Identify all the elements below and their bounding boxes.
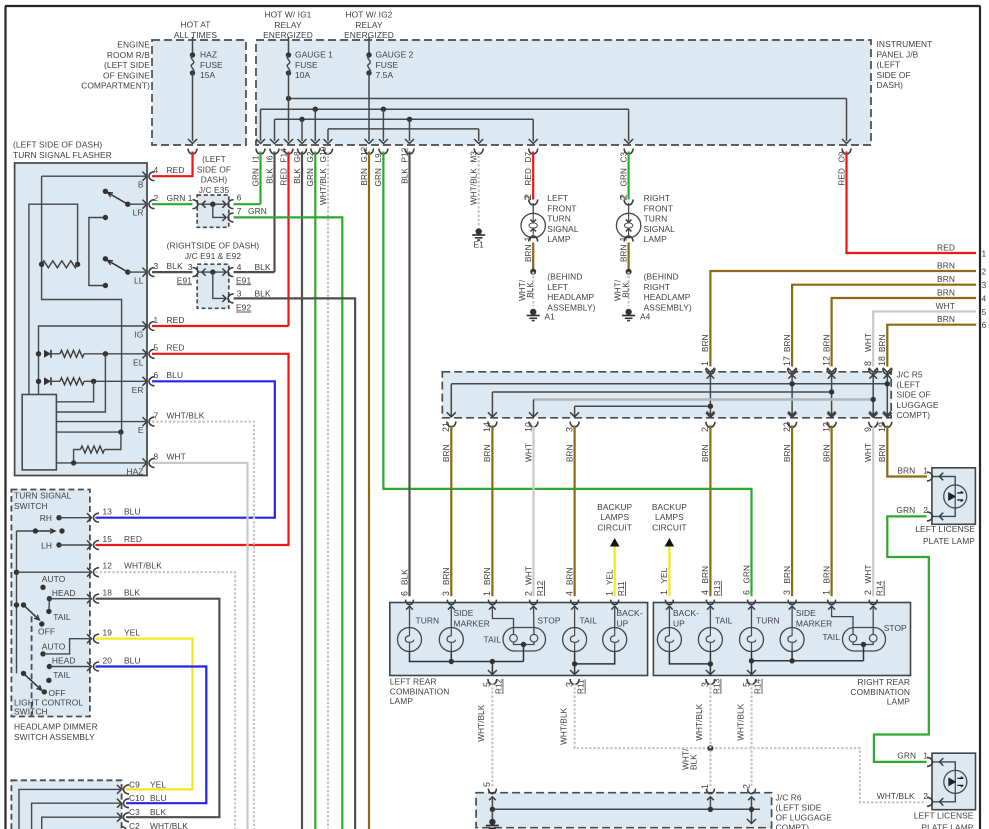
svg-text:C10: C10: [129, 793, 145, 803]
svg-text:1: 1: [618, 237, 628, 242]
svg-text:O9: O9: [837, 151, 846, 162]
svg-text:BRN: BRN: [565, 444, 574, 462]
svg-text:F14: F14: [279, 148, 288, 163]
svg-text:G10: G10: [319, 146, 328, 162]
svg-text:E1: E1: [473, 240, 484, 250]
svg-text:WHT/BLK: WHT/BLK: [124, 561, 162, 571]
svg-text:BLK: BLK: [167, 261, 183, 271]
svg-text:1: 1: [700, 784, 710, 789]
svg-text:ASSEMBLY): ASSEMBLY): [644, 302, 692, 312]
svg-text:STOP: STOP: [538, 616, 561, 626]
svg-text:SIDE OF: SIDE OF: [877, 70, 911, 80]
svg-text:BRN: BRN: [701, 566, 710, 584]
svg-text:6: 6: [982, 320, 987, 330]
svg-text:BRN: BRN: [878, 334, 887, 352]
svg-text:J/C R5: J/C R5: [897, 370, 923, 380]
svg-text:LUGGAGE: LUGGAGE: [897, 400, 939, 410]
svg-text:C9: C9: [129, 779, 140, 789]
svg-text:PANEL J/B: PANEL J/B: [877, 49, 919, 59]
svg-text:2: 2: [982, 267, 987, 277]
svg-text:GRN: GRN: [742, 565, 751, 584]
svg-text:YEL: YEL: [660, 567, 669, 583]
svg-text:GRN: GRN: [306, 168, 315, 187]
svg-text:2: 2: [618, 196, 628, 201]
svg-text:TAIL: TAIL: [53, 670, 71, 680]
svg-text:R13: R13: [713, 678, 722, 694]
svg-text:WHT/BLK: WHT/BLK: [736, 703, 745, 741]
svg-text:RED: RED: [124, 534, 142, 544]
svg-text:22: 22: [782, 422, 792, 432]
svg-text:TURN SIGNAL FLASHER: TURN SIGNAL FLASHER: [13, 150, 112, 160]
svg-text:8: 8: [154, 452, 159, 462]
svg-text:BRN: BRN: [937, 274, 955, 284]
svg-text:C2: C2: [129, 821, 140, 829]
svg-text:BACKUP: BACKUP: [652, 502, 687, 512]
svg-text:(LEFT SIDE OF DASH): (LEFT SIDE OF DASH): [13, 140, 102, 150]
svg-text:G2: G2: [306, 151, 315, 162]
svg-text:3: 3: [188, 262, 193, 272]
svg-text:I1: I1: [251, 155, 260, 162]
svg-text:BRN: BRN: [822, 566, 831, 584]
svg-text:BRN: BRN: [442, 444, 451, 462]
svg-text:BLK: BLK: [621, 282, 630, 298]
svg-text:ER: ER: [132, 385, 144, 395]
svg-text:G8: G8: [293, 151, 302, 162]
svg-text:GRN: GRN: [248, 206, 267, 216]
svg-text:BRN: BRN: [524, 244, 533, 262]
svg-text:3: 3: [564, 682, 574, 687]
svg-text:18: 18: [877, 356, 887, 366]
svg-text:C3: C3: [129, 807, 140, 817]
svg-text:BLK: BLK: [255, 262, 271, 272]
svg-text:R13: R13: [713, 580, 722, 596]
svg-text:BRN: BRN: [783, 566, 792, 584]
svg-text:(LEFT SIDE: (LEFT SIDE: [776, 803, 822, 813]
svg-text:BLK: BLK: [124, 588, 140, 598]
svg-text:YEL: YEL: [606, 569, 615, 585]
svg-text:BACK-: BACK-: [673, 608, 699, 618]
svg-text:GRN: GRN: [619, 168, 628, 187]
svg-text:TAIL: TAIL: [53, 612, 71, 622]
svg-text:BRN: BRN: [483, 567, 492, 585]
svg-text:SIDE: SIDE: [454, 608, 474, 618]
svg-text:SIDE: SIDE: [796, 608, 816, 618]
svg-text:HEADLAMP: HEADLAMP: [547, 292, 594, 302]
svg-text:PLATE LAMP: PLATE LAMP: [921, 823, 973, 829]
svg-text:FRONT: FRONT: [644, 203, 673, 213]
svg-text:LAMP: LAMP: [390, 696, 414, 706]
svg-text:1: 1: [523, 237, 533, 242]
svg-text:GRN: GRN: [897, 751, 916, 761]
svg-text:D7: D7: [524, 151, 533, 162]
svg-text:4: 4: [982, 294, 987, 304]
svg-text:(RIGHTSIDE OF DASH): (RIGHTSIDE OF DASH): [167, 241, 260, 251]
svg-text:BLU: BLU: [124, 507, 141, 517]
svg-text:WHT/BLK: WHT/BLK: [695, 703, 704, 741]
svg-text:OF ENGINE: OF ENGINE: [103, 70, 150, 80]
svg-text:SWITCH ASSEMBLY: SWITCH ASSEMBLY: [14, 732, 95, 742]
svg-text:BACK-: BACK-: [617, 608, 643, 618]
svg-text:TAIL: TAIL: [715, 616, 733, 626]
svg-text:RELAY: RELAY: [355, 20, 383, 30]
svg-text:BRN: BRN: [937, 288, 955, 298]
svg-text:GRN: GRN: [896, 505, 915, 515]
svg-text:WHT: WHT: [864, 333, 873, 352]
svg-text:L9: L9: [374, 153, 383, 163]
svg-text:R12: R12: [495, 678, 504, 694]
svg-text:BRN: BRN: [822, 334, 831, 352]
svg-text:WHT/BLK: WHT/BLK: [470, 168, 479, 206]
svg-text:LEFT: LEFT: [547, 282, 568, 292]
svg-text:GRN: GRN: [167, 193, 186, 203]
svg-text:(LEFT: (LEFT: [897, 380, 921, 390]
svg-text:WHT/BLK: WHT/BLK: [560, 707, 569, 745]
svg-text:WHT: WHT: [524, 443, 533, 462]
svg-text:WHT/BLK: WHT/BLK: [319, 168, 328, 206]
svg-text:LAMPS: LAMPS: [655, 512, 684, 522]
svg-text:(LEFT: (LEFT: [877, 60, 901, 70]
svg-text:LEFT LICENSE: LEFT LICENSE: [914, 811, 974, 821]
svg-text:AUTO: AUTO: [42, 642, 66, 652]
svg-text:9: 9: [863, 427, 873, 432]
svg-text:RED: RED: [167, 315, 185, 325]
svg-text:WHT/BLK: WHT/BLK: [477, 704, 486, 742]
svg-text:INSTRUMENT: INSTRUMENT: [877, 39, 933, 49]
svg-text:E91: E91: [236, 275, 251, 285]
svg-text:BLK: BLK: [255, 289, 271, 299]
svg-text:FUSE: FUSE: [295, 60, 318, 70]
svg-text:1: 1: [188, 193, 193, 203]
svg-text:2: 2: [923, 791, 928, 801]
svg-text:R14: R14: [876, 580, 885, 596]
svg-text:13: 13: [103, 507, 113, 517]
svg-text:WHT: WHT: [936, 301, 955, 311]
svg-text:6: 6: [399, 591, 409, 596]
svg-text:4: 4: [564, 591, 574, 596]
svg-text:12: 12: [821, 356, 831, 366]
svg-text:ALL TIMES: ALL TIMES: [174, 30, 218, 40]
svg-text:BLK: BLK: [400, 569, 409, 585]
svg-text:LEFT: LEFT: [547, 193, 568, 203]
svg-text:13: 13: [821, 422, 831, 432]
svg-text:TAIL: TAIL: [823, 632, 841, 642]
svg-text:(LEFT SIDE: (LEFT SIDE: [104, 60, 150, 70]
svg-text:COMPARTMENT): COMPARTMENT): [81, 81, 150, 91]
svg-text:BLK: BLK: [400, 168, 409, 184]
svg-text:GAUGE 2: GAUGE 2: [376, 50, 414, 60]
svg-text:STOP: STOP: [884, 623, 907, 633]
svg-text:1: 1: [700, 361, 710, 366]
svg-text:RIGHT REAR: RIGHT REAR: [858, 677, 911, 687]
svg-text:BRN: BRN: [878, 444, 887, 462]
svg-text:COMPT): COMPT): [897, 410, 931, 420]
svg-text:BRN: BRN: [783, 334, 792, 352]
svg-text:HEADLAMP: HEADLAMP: [644, 292, 691, 302]
svg-text:RIGHT: RIGHT: [644, 282, 671, 292]
svg-text:HEAD: HEAD: [52, 588, 76, 598]
svg-text:8: 8: [863, 361, 873, 366]
svg-text:4: 4: [237, 262, 242, 272]
svg-text:RELAY: RELAY: [274, 20, 302, 30]
svg-text:3: 3: [700, 682, 710, 687]
svg-text:TAIL: TAIL: [580, 616, 598, 626]
svg-text:WHT: WHT: [524, 566, 533, 585]
svg-text:C3: C3: [619, 151, 628, 162]
svg-text:(BEHIND: (BEHIND: [547, 272, 582, 282]
svg-text:SIGNAL: SIGNAL: [644, 224, 676, 234]
svg-text:R12: R12: [536, 580, 545, 596]
svg-text:5: 5: [482, 682, 492, 687]
svg-text:HAZ: HAZ: [126, 466, 143, 476]
svg-text:MARKER: MARKER: [454, 618, 490, 628]
svg-text:IG: IG: [134, 330, 143, 340]
svg-text:RED: RED: [167, 343, 185, 353]
svg-text:YEL: YEL: [124, 628, 140, 638]
svg-text:5: 5: [154, 343, 159, 353]
svg-text:RED: RED: [937, 243, 955, 253]
svg-text:I6: I6: [265, 155, 274, 162]
svg-text:RED: RED: [167, 165, 185, 175]
svg-text:WHT/BLK: WHT/BLK: [877, 791, 915, 801]
svg-text:5: 5: [482, 782, 492, 787]
svg-text:1: 1: [821, 590, 831, 595]
svg-text:19: 19: [103, 628, 113, 638]
svg-text:R14: R14: [754, 678, 763, 694]
svg-text:RED: RED: [524, 168, 533, 186]
svg-text:3: 3: [982, 280, 987, 290]
svg-text:J/C E35: J/C E35: [199, 185, 230, 195]
svg-text:BRN: BRN: [483, 444, 492, 462]
svg-text:FRONT: FRONT: [547, 203, 576, 213]
svg-text:4: 4: [700, 590, 710, 595]
svg-text:1: 1: [605, 591, 615, 596]
svg-text:15: 15: [103, 534, 113, 544]
svg-text:RH: RH: [40, 513, 52, 523]
svg-text:BRN: BRN: [360, 168, 369, 186]
svg-text:5: 5: [741, 682, 751, 687]
svg-text:BLK: BLK: [690, 754, 699, 770]
svg-text:MARKER: MARKER: [796, 618, 832, 628]
svg-text:4: 4: [154, 165, 159, 175]
svg-text:BRN: BRN: [822, 444, 831, 462]
svg-text:COMPT): COMPT): [776, 823, 810, 829]
svg-text:(LEFT: (LEFT: [202, 154, 226, 164]
svg-text:TURN: TURN: [416, 616, 440, 626]
svg-text:ENGINE: ENGINE: [117, 40, 150, 50]
svg-text:12: 12: [103, 561, 113, 571]
svg-text:LR: LR: [133, 208, 144, 218]
svg-text:2: 2: [741, 784, 751, 789]
svg-text:BACKUP: BACKUP: [597, 502, 632, 512]
svg-text:ROOM R/B: ROOM R/B: [107, 50, 150, 60]
svg-text:E: E: [138, 425, 144, 435]
svg-text:CIRCUIT: CIRCUIT: [597, 522, 632, 532]
svg-text:2: 2: [523, 591, 533, 596]
svg-text:WHT: WHT: [864, 443, 873, 462]
svg-text:19: 19: [877, 422, 887, 432]
svg-text:RIGHT: RIGHT: [644, 193, 671, 203]
svg-text:TURN: TURN: [644, 214, 668, 224]
svg-text:BLK: BLK: [526, 282, 535, 298]
svg-text:1: 1: [659, 590, 669, 595]
svg-text:14: 14: [482, 422, 492, 432]
svg-text:BRN: BRN: [783, 444, 792, 462]
svg-text:OFF: OFF: [38, 627, 55, 637]
svg-text:DASH): DASH): [877, 80, 904, 90]
svg-text:TURN: TURN: [756, 616, 780, 626]
svg-text:RED: RED: [837, 168, 846, 186]
svg-text:WHT/BLK: WHT/BLK: [167, 410, 205, 420]
svg-text:BLU: BLU: [124, 655, 141, 665]
svg-text:J/C R6: J/C R6: [776, 793, 802, 803]
svg-text:1: 1: [482, 591, 492, 596]
svg-text:3: 3: [564, 427, 574, 432]
svg-text:OFF: OFF: [49, 688, 66, 698]
svg-text:EL: EL: [133, 357, 144, 367]
svg-text:LL: LL: [134, 276, 144, 286]
svg-text:BLK: BLK: [150, 807, 166, 817]
svg-text:SIGNAL: SIGNAL: [547, 224, 579, 234]
svg-text:2: 2: [700, 427, 710, 432]
svg-text:BRN: BRN: [565, 567, 574, 585]
svg-text:UP: UP: [673, 618, 685, 628]
svg-text:10: 10: [523, 422, 533, 432]
svg-text:BRN: BRN: [897, 465, 915, 475]
svg-text:BRN: BRN: [701, 334, 710, 352]
svg-text:A4: A4: [640, 312, 651, 322]
svg-text:RED: RED: [279, 168, 288, 186]
svg-text:SIDE OF: SIDE OF: [897, 390, 931, 400]
svg-text:R11: R11: [577, 679, 586, 694]
svg-text:SWITCH: SWITCH: [14, 707, 48, 717]
svg-text:BRN: BRN: [619, 244, 628, 262]
svg-text:HOT W/ IG1: HOT W/ IG1: [265, 10, 312, 20]
svg-text:LEFT REAR: LEFT REAR: [390, 677, 437, 687]
svg-text:FUSE: FUSE: [200, 60, 223, 70]
svg-text:GAUGE 1: GAUGE 1: [295, 50, 333, 60]
svg-text:J/C E91 & E92: J/C E91 & E92: [185, 251, 241, 261]
svg-text:21: 21: [441, 422, 451, 432]
svg-text:2: 2: [523, 196, 533, 201]
svg-text:WHT: WHT: [864, 565, 873, 584]
svg-text:AUTO: AUTO: [42, 574, 66, 584]
svg-text:HEAD: HEAD: [52, 655, 76, 665]
svg-text:B: B: [138, 180, 144, 190]
svg-text:G12: G12: [360, 146, 369, 162]
svg-text:A1: A1: [545, 312, 556, 322]
svg-text:20: 20: [103, 655, 113, 665]
svg-text:7: 7: [154, 410, 159, 420]
svg-text:TURN: TURN: [547, 214, 571, 224]
svg-text:YEL: YEL: [150, 779, 166, 789]
svg-text:3: 3: [441, 591, 451, 596]
svg-text:2: 2: [154, 193, 159, 203]
svg-text:BLK: BLK: [293, 168, 302, 184]
svg-text:HEADLAMP DIMMER: HEADLAMP DIMMER: [14, 722, 98, 732]
svg-text:WHT: WHT: [167, 452, 186, 462]
svg-text:3: 3: [782, 590, 792, 595]
svg-text:DASH): DASH): [201, 175, 228, 185]
svg-text:BLU: BLU: [167, 370, 184, 380]
svg-text:7.5A: 7.5A: [376, 70, 394, 80]
svg-text:LAMP: LAMP: [887, 697, 911, 707]
svg-text:UP: UP: [617, 618, 629, 628]
svg-text:1: 1: [982, 249, 987, 259]
svg-text:2: 2: [923, 505, 928, 515]
svg-text:LAMPS: LAMPS: [600, 512, 629, 522]
svg-text:10A: 10A: [295, 70, 311, 80]
svg-text:5: 5: [982, 307, 987, 317]
svg-text:(BEHIND: (BEHIND: [644, 272, 679, 282]
svg-text:M3: M3: [470, 151, 479, 163]
svg-text:CIRCUIT: CIRCUIT: [652, 522, 687, 532]
svg-text:SIDE OF: SIDE OF: [197, 164, 231, 174]
svg-text:SWITCH: SWITCH: [14, 501, 48, 511]
svg-text:1: 1: [923, 751, 928, 761]
svg-text:1: 1: [154, 315, 159, 325]
svg-text:LAMP: LAMP: [547, 234, 571, 244]
svg-text:WHT/BLK: WHT/BLK: [150, 821, 188, 829]
svg-text:R11: R11: [617, 581, 626, 596]
svg-text:GRN: GRN: [374, 168, 383, 187]
svg-text:BLU: BLU: [150, 793, 167, 803]
svg-text:7: 7: [237, 206, 242, 216]
svg-text:GRN: GRN: [251, 168, 260, 187]
svg-text:6: 6: [154, 370, 159, 380]
svg-text:COMBINATION: COMBINATION: [390, 686, 450, 696]
svg-text:OF LUGGAGE: OF LUGGAGE: [776, 813, 833, 823]
svg-text:1: 1: [923, 465, 928, 475]
svg-text:LEFT LICENSE: LEFT LICENSE: [915, 524, 975, 534]
svg-text:FUSE: FUSE: [376, 60, 399, 70]
svg-text:TAIL: TAIL: [484, 635, 502, 645]
svg-text:E92: E92: [236, 303, 251, 313]
svg-text:6: 6: [237, 193, 242, 203]
svg-text:BRN: BRN: [442, 567, 451, 585]
svg-text:BRN: BRN: [937, 314, 955, 324]
svg-text:3: 3: [154, 261, 159, 271]
svg-text:3: 3: [237, 289, 242, 299]
svg-text:17: 17: [782, 356, 792, 366]
svg-text:TURN SIGNAL: TURN SIGNAL: [14, 491, 72, 501]
svg-text:LH: LH: [41, 541, 52, 551]
svg-text:BRN: BRN: [701, 444, 710, 462]
svg-text:HOT W/ IG2: HOT W/ IG2: [346, 10, 393, 20]
svg-text:E91: E91: [177, 275, 192, 285]
svg-text:P12: P12: [400, 147, 409, 162]
svg-text:15A: 15A: [200, 70, 216, 80]
svg-text:2: 2: [863, 590, 873, 595]
svg-text:HAZ: HAZ: [200, 50, 217, 60]
svg-text:HOT AT: HOT AT: [180, 20, 210, 30]
svg-text:BRN: BRN: [937, 261, 955, 271]
svg-text:COMBINATION: COMBINATION: [850, 687, 910, 697]
svg-text:PLATE LAMP: PLATE LAMP: [923, 536, 975, 546]
svg-text:6: 6: [741, 590, 751, 595]
svg-text:18: 18: [103, 588, 113, 598]
svg-text:BLK: BLK: [265, 168, 274, 184]
svg-text:LAMP: LAMP: [644, 234, 668, 244]
